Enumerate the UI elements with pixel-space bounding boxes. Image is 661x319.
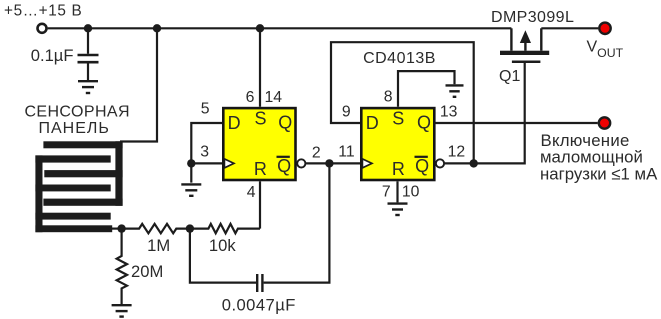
svg-text:CD4013B: CD4013B [363,50,436,67]
svg-text:6: 6 [246,89,255,106]
power input terminal [38,24,47,33]
wire: U1b pin 8 to ground [398,71,455,107]
wire: 10k to FF1 pin 4 (R) [259,181,261,228]
wire: Q1 drain to Vout [541,27,598,29]
transistor Q1 DMP3099L p-MOSFET [500,28,549,63]
node: sensor / 1M / 20M junction [117,224,125,232]
svg-text:D: D [366,113,379,133]
U1a Q-bar output bubble [297,159,305,167]
capacitor 0.0047uF [257,274,262,292]
svg-text:R: R [254,159,267,179]
terminal Vout [599,23,610,34]
svg-text:4: 4 [247,184,256,201]
wire: pin 6/14 to rail [259,28,261,107]
node: Q-bar / feedback junction [470,159,478,167]
node: rail junction at C1 [84,24,92,32]
svg-text:8: 8 [384,89,393,106]
svg-text:ПАНЕЛЬ: ПАНЕЛЬ [38,120,109,137]
wire: sensor top electrode to rail [120,28,157,141]
svg-text:5: 5 [201,101,210,118]
ground at FF1 inputs [181,184,201,195]
capacitor C 0.1uF [78,28,99,80]
node: 1M / 10k / cap junction [186,224,194,232]
svg-text:Q1: Q1 [499,68,520,85]
terminal: low-power load output [599,117,610,128]
svg-text:нагрузки ≤1 мА: нагрузки ≤1 мА [540,164,658,183]
svg-text:9: 9 [342,104,351,121]
svg-text:0.0047µF: 0.0047µF [222,296,296,315]
svg-text:DMP3099L: DMP3099L [491,9,574,26]
svg-text:20M: 20M [131,262,163,281]
resistor 20M [117,229,127,304]
node: pins 5/3 junction [187,159,195,167]
svg-text:Q: Q [277,156,291,176]
svg-text:Q: Q [417,113,431,133]
flip-flop U1a body [223,108,295,180]
U1a clock wedge [224,159,234,168]
svg-text:7: 7 [382,184,391,201]
svg-text:13: 13 [440,104,458,121]
U1b clock wedge [362,159,372,168]
wire: clock pin 3 [191,162,222,164]
svg-text:12: 12 [448,144,466,161]
svg-text:S: S [255,109,267,129]
resistor 1M [122,224,190,233]
node: clock/timing junction [325,159,333,167]
wire: top supply rail [48,27,512,29]
svg-text:СЕНСОРНАЯ: СЕНСОРНАЯ [24,103,129,120]
ground under C 0.1uF [78,81,98,93]
wire: sensor bottom electrode to node [109,228,122,230]
wire: node to timing capacitor [190,229,256,283]
svg-text:10k: 10k [209,236,236,255]
wire: U1b D feedback loop [331,42,474,163]
wire: U1b Q (pin 13) to output terminal [434,122,597,124]
svg-text:2: 2 [312,144,321,161]
U1b Q-bar output bubble [436,159,444,167]
flip-flop U1b body [361,108,434,180]
resistor 10k [190,224,260,233]
svg-text:D: D [228,113,241,133]
wire: U1a Q-bar to U1b clock [306,162,360,164]
svg-text:3: 3 [200,143,209,160]
sensor panel electrodes [35,141,122,232]
svg-text:14: 14 [265,89,283,106]
ground at U1b pins 7/10 [388,204,408,215]
ground at pin 8 [446,85,464,96]
FF1 ground branch (pins 5,3) [191,123,222,183]
svg-text:Q: Q [278,113,292,133]
svg-text:1M: 1M [147,236,170,255]
node: rail junction at sensor branch [153,24,161,32]
wire: U1b Q-bar to Q1 gate [445,63,525,163]
svg-text:0.1µF: 0.1µF [31,46,74,65]
ground under 20M [112,305,132,316]
svg-text:S: S [392,109,404,129]
svg-text:R: R [392,159,405,179]
wire: timing capacitor to clock node [264,163,330,282]
svg-text:+5…+15 В: +5…+15 В [4,2,82,19]
svg-text:10: 10 [402,184,420,201]
svg-text:Q: Q [415,156,429,176]
wire: U1b pins 7/10 to ground [396,181,398,202]
node: rail junction at pin 6/14 [256,24,264,32]
svg-text:11: 11 [338,144,355,161]
